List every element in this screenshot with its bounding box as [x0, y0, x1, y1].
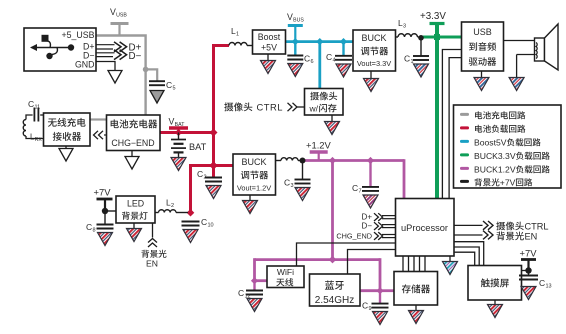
wire purple down to C9	[379, 291, 381, 304]
Boost +5V converter U1	[253, 30, 286, 54]
svg-text:WiFi: WiFi	[277, 267, 294, 277]
ground below C3	[295, 188, 310, 201]
inductor L1 label	[231, 26, 239, 38]
power rail V_BAT	[169, 128, 188, 133]
ground camera module	[325, 122, 340, 135]
USB audio text	[469, 27, 496, 66]
wire teal branch to C4	[342, 42, 344, 56]
svg-text:USB: USB	[473, 27, 492, 37]
legend entry battery load loop (red)	[460, 125, 525, 133]
svg-text:+5_USB: +5_USB	[61, 30, 94, 40]
node battery junction at BUCK 1.2V row	[209, 161, 217, 169]
camera module with flash U6	[305, 89, 344, 116]
capacitor C2 label	[197, 169, 207, 181]
wire V_BUS branch to C6	[294, 42, 296, 56]
net label +7V right	[520, 248, 538, 259]
capacitor C5 label	[166, 80, 176, 92]
wire WiFi to uProcessor	[297, 243, 396, 266]
wire uProcessor to touchscreen 3	[454, 252, 475, 265]
svg-text:Vout=1.2V: Vout=1.2V	[237, 184, 271, 193]
svg-text:+7V: +7V	[500, 178, 516, 188]
svg-text:2: 2	[203, 175, 206, 181]
wire WiFi/BT horizontal rail (purple)	[255, 258, 381, 261]
legend box	[454, 105, 562, 188]
svg-text:8: 8	[92, 228, 95, 234]
inductor L2 label	[166, 198, 174, 210]
wire LED backlight to L2	[155, 212, 159, 214]
svg-text:BUCK1.2V: BUCK1.2V	[474, 165, 516, 175]
wire USB D+ pair to net label	[96, 45, 115, 49]
wire branch to C5	[146, 69, 158, 81]
uProcessor output camera CTRL	[483, 221, 549, 232]
ground BUCK 1.2V	[243, 201, 258, 214]
wire battery net to C2	[212, 166, 215, 178]
wire BUCK1.2 output to coil	[275, 160, 281, 162]
ground below C2	[206, 186, 221, 199]
memory text	[402, 284, 430, 293]
svg-text:Boost5V: Boost5V	[474, 138, 507, 148]
node +7V touch junction	[525, 267, 531, 273]
svg-text:13: 13	[545, 284, 551, 290]
svg-text:C: C	[238, 288, 244, 298]
capacitor C4	[335, 56, 352, 60]
svg-text:2.54GHz: 2.54GHz	[315, 295, 354, 306]
wire backlight EN stub	[152, 223, 154, 238]
svg-text:USB: USB	[116, 13, 127, 19]
battery BAT	[171, 133, 186, 158]
svg-text:+1.2V: +1.2V	[306, 140, 332, 151]
capacitor C10 label	[201, 217, 214, 229]
wire LED ground stem	[133, 223, 135, 229]
capacitor C3 label	[284, 178, 294, 190]
svg-text:C: C	[352, 183, 358, 193]
ground Boost converter	[261, 61, 276, 74]
wire BUCK3.3 to L3	[395, 36, 398, 38]
svg-text:CHG−END: CHG−END	[111, 138, 154, 148]
wire +1.2V branch to C7	[369, 161, 371, 187]
ground below C12	[247, 299, 262, 312]
wire memory ground stem	[415, 305, 417, 311]
uProcessor text	[401, 223, 448, 233]
wire CHG-END to wireless receiver	[104, 134, 107, 136]
legend entry battery charge loop (gray)	[460, 111, 525, 119]
capacitor C2	[205, 178, 222, 182]
svg-text:10: 10	[207, 223, 213, 229]
wire wireless ground stem	[65, 146, 67, 149]
svg-text:3: 3	[290, 183, 293, 189]
capacitor C11 series	[34, 108, 38, 122]
svg-text:C: C	[197, 169, 203, 179]
wire memory bus	[403, 256, 425, 272]
inductor L2	[159, 210, 176, 213]
net label +3.3V	[420, 11, 446, 22]
capacitor C12 label	[238, 288, 251, 300]
wire +1.2V rail (purple)	[301, 159, 404, 162]
legend entry BUCK1.2V load loop (purple)	[460, 165, 550, 175]
inductor L3 label	[398, 18, 406, 30]
legend entry Boost5V load loop (teal)	[460, 138, 541, 148]
wire BUCK3.3 ground stem	[370, 71, 372, 79]
node +1.2V junction at C7	[367, 157, 374, 164]
net label V_BUS	[287, 12, 304, 24]
wire Boost 5V output bus (teal)	[285, 40, 353, 43]
svg-text:5: 5	[172, 86, 175, 92]
svg-text:C: C	[404, 54, 410, 64]
node +7V junction	[102, 208, 108, 214]
capacitor C4 label	[326, 52, 336, 64]
capacitor C1 label	[404, 54, 414, 66]
USB connector icon	[30, 35, 74, 59]
svg-text:BUS: BUS	[293, 18, 304, 24]
ground below C13	[521, 287, 536, 300]
wire +7V to C13	[528, 271, 530, 276]
ground USB audio	[474, 78, 489, 91]
svg-text:C: C	[166, 80, 172, 90]
wire uProcessor CHG_END in pair	[382, 235, 396, 238]
wire camera ground stem	[331, 115, 333, 122]
wire +1.2V drop to uProcessor	[403, 159, 406, 198]
wire Boost ground stem	[267, 54, 269, 61]
node V_USB junction dot	[143, 67, 149, 73]
wire purple into memory box	[380, 289, 394, 292]
net chevron D+ at USB	[114, 42, 142, 54]
node battery junction V_BAT riser	[210, 129, 218, 137]
wire purple Bluetooth stub	[360, 289, 380, 292]
inductor L1	[229, 43, 247, 46]
wire uProcessor D+ in pair	[382, 216, 396, 219]
wire purple down to BT/memory row	[379, 258, 382, 291]
ground below battery	[171, 158, 186, 171]
ground below C10	[183, 230, 198, 243]
legend entry backlight +7V loop (black)	[460, 178, 532, 188]
node teal junction at C4	[340, 38, 347, 45]
wire L1 to Boost input	[247, 45, 253, 47]
power rail +3.3V	[430, 22, 445, 25]
capacitor C9	[372, 304, 389, 308]
WiFi antenna text	[276, 267, 294, 286]
svg-text:D−: D−	[129, 51, 142, 62]
uProcessor input CHG_END	[336, 231, 382, 240]
net label V_BAT	[169, 117, 186, 129]
uProcessor input D-	[362, 221, 383, 230]
wire uProcessor D- in pair	[382, 225, 396, 228]
wire Bluetooth to uProcessor	[348, 250, 396, 275]
inductor L4 buck 1.2V output	[281, 158, 298, 161]
svg-text:11: 11	[34, 105, 40, 111]
capacitor C11 label	[28, 99, 40, 111]
net label V_USB	[110, 7, 127, 19]
ground battery charger	[125, 157, 139, 170]
svg-text:BUCK: BUCK	[241, 157, 266, 167]
wireless receiver text	[48, 118, 86, 141]
uProcessor U9	[396, 199, 455, 257]
svg-text:C: C	[326, 52, 332, 62]
capacitor C10	[182, 222, 200, 226]
ground below C7	[363, 195, 378, 208]
wire charger ground stem	[131, 150, 133, 157]
svg-text:EN: EN	[146, 259, 158, 269]
svg-text:9: 9	[368, 306, 371, 312]
ground speaker	[509, 78, 524, 91]
svg-text:BUCK3.3V: BUCK3.3V	[474, 151, 516, 161]
node 1.2V output junction	[300, 158, 306, 164]
ground BUCK 3.3V	[364, 79, 379, 92]
memory U12	[394, 272, 438, 306]
USB connector J1	[24, 28, 96, 71]
wire +5_USB from USB connector to charger (gray)	[96, 36, 146, 116]
wire battery net to BUCK 1.2V input	[212, 164, 233, 167]
BUCK 3.3V text	[357, 33, 391, 68]
battery label	[189, 142, 207, 152]
LED backlight driver U8	[116, 196, 155, 223]
wire wireless receiver loop with C11	[26, 115, 44, 139]
wire USB D- pair to net label	[96, 53, 115, 57]
uProcessor output backlight EN	[483, 231, 537, 242]
capacitor C1	[413, 56, 429, 60]
svg-text:D+: D+	[362, 212, 373, 221]
battery charger text	[111, 119, 158, 148]
legend entry BUCK3.3V load loop (green)	[460, 151, 550, 161]
wire uProcessor to touchscreen 2	[454, 247, 479, 266]
svg-text:+5V: +5V	[261, 43, 277, 53]
capacitor C5	[149, 81, 165, 85]
svg-text:EN: EN	[525, 232, 538, 242]
wire uProcessor camera CTRL out	[454, 224, 483, 226]
wire battery net charger output	[160, 131, 214, 134]
svg-text:w/: w/	[309, 104, 319, 114]
node +1.2V junction at drop	[329, 157, 336, 164]
svg-text:LED: LED	[127, 199, 144, 209]
wire battery net to LED backlight branch	[191, 166, 216, 213]
power rail +7V right	[521, 260, 536, 271]
USB audio driver U3	[462, 22, 504, 71]
wire L2 to battery node	[176, 212, 188, 214]
wire purple stub into WiFi box	[255, 279, 268, 282]
Bluetooth text	[315, 281, 354, 306]
capacitor C3	[295, 180, 311, 184]
wire C3 branch	[302, 161, 304, 180]
wire camera CTRL stub	[297, 106, 305, 108]
wire L3 to 3.3V node	[418, 36, 422, 38]
node battery junction at L2/C10	[187, 209, 195, 217]
wire coil to 1.2V node	[298, 160, 301, 162]
svg-text:CTRL: CTRL	[525, 222, 549, 232]
capacitor C7 label	[352, 183, 362, 195]
BUCK 3.3V regulator U2	[353, 30, 396, 71]
inductor L3	[398, 34, 418, 37]
battery charger U5	[107, 115, 161, 151]
node purple junction at drop	[329, 256, 337, 264]
svg-text:GND: GND	[75, 60, 95, 70]
wire +3.3V riser and drop to uProcessor (green)	[435, 25, 439, 199]
wire USB connector GND	[96, 62, 115, 71]
svg-text:2: 2	[171, 203, 174, 209]
net chevron D- at USB	[114, 50, 142, 62]
wire +7V to LED backlight	[105, 210, 116, 212]
touchscreen text	[481, 278, 509, 287]
net label backlight EN	[141, 239, 166, 269]
svg-text:7: 7	[358, 189, 361, 195]
USB connector pin labels	[61, 30, 94, 70]
ground below C6	[288, 64, 303, 77]
capacitor C13	[519, 276, 538, 280]
Boost +5V text	[258, 32, 281, 53]
svg-text:3: 3	[403, 24, 406, 30]
net chevron camera CTRL left	[288, 103, 298, 111]
wire battery net down to 1.2V buck row	[212, 131, 215, 166]
node purple junction BT/C9/memory	[376, 287, 383, 294]
svg-text:C: C	[28, 99, 34, 109]
svg-text:6: 6	[310, 59, 313, 65]
svg-text:+7V: +7V	[520, 248, 538, 259]
ground LED backlight	[127, 229, 142, 242]
wireless charging receiver U4	[44, 113, 91, 146]
svg-text:V: V	[110, 7, 116, 17]
capacitor C8	[97, 225, 114, 229]
svg-text:C: C	[201, 217, 207, 227]
ground uProcessor	[443, 262, 458, 275]
LED backlight text	[122, 199, 148, 220]
svg-text:RX: RX	[35, 137, 43, 143]
wire uProcessor backlight EN out	[454, 234, 483, 236]
wire speaker return to ground	[516, 55, 518, 78]
svg-text:4: 4	[332, 58, 335, 64]
svg-text:BAT: BAT	[175, 122, 186, 128]
wire speaker - to ground run	[517, 54, 535, 56]
svg-text:V: V	[287, 12, 293, 22]
capacitor C12	[246, 291, 263, 295]
svg-text:C: C	[86, 222, 92, 232]
power rail +1.2V	[310, 152, 328, 161]
power rail +7V left	[97, 199, 113, 211]
uProcessor input D+	[362, 212, 383, 221]
ground below C1	[414, 64, 429, 77]
wire USB-audio signal 2 to uProcessor	[449, 58, 462, 199]
svg-text:D−: D−	[362, 221, 373, 230]
svg-text:C: C	[284, 178, 290, 188]
net label +7V left	[94, 187, 112, 198]
wire wireless receiver to charger (gray)	[90, 118, 106, 120]
power rail V_BUS	[288, 26, 303, 42]
svg-text:CTRL: CTRL	[257, 102, 283, 113]
svg-text:+7V: +7V	[94, 187, 112, 198]
ground memory	[409, 311, 424, 324]
net chevron CHG-END to wireless	[94, 131, 104, 139]
ground wireless receiver	[59, 149, 73, 162]
wire USB-audio ground stem	[481, 71, 483, 78]
power rail V_USB	[111, 24, 129, 36]
Bluetooth 2.54GHz U11	[310, 274, 361, 306]
camera module text	[309, 92, 338, 114]
touchscreen U13	[468, 266, 522, 301]
ground below C8	[98, 233, 113, 246]
BUCK 1.2V text	[237, 157, 271, 193]
capacitor C6	[287, 56, 303, 60]
wire +7V to C8	[104, 211, 106, 225]
wire +3.3V output to USB audio driver (green)	[421, 36, 462, 39]
node +3.3V junction	[434, 34, 440, 40]
node purple junction WiFi/C12	[251, 277, 258, 284]
ground below C4	[336, 64, 351, 77]
WiFi antenna U10	[267, 266, 304, 288]
speaker LS1	[535, 24, 559, 70]
ground touchscreen	[488, 305, 503, 318]
wire touchscreen to +7V	[521, 270, 529, 272]
net label +1.2V	[306, 140, 332, 151]
wire uProcessor ground stem	[449, 256, 451, 262]
svg-text:C: C	[362, 301, 368, 311]
ground USB connector	[108, 71, 122, 84]
ground below C9	[373, 312, 388, 325]
node battery junction at charger output	[175, 129, 182, 136]
node 3.3V/L3 junction	[418, 35, 424, 41]
inductor Lrx receive coil	[23, 120, 26, 137]
wire C1 branch	[420, 37, 422, 56]
node V_BUS junction	[292, 38, 299, 45]
capacitor C8 label	[86, 222, 96, 234]
svg-text:BAT: BAT	[189, 142, 207, 152]
net label camera CTRL left	[224, 102, 283, 113]
svg-text:BUCK: BUCK	[361, 33, 386, 43]
inductor Lrx label	[30, 133, 42, 144]
svg-text:1: 1	[236, 32, 239, 38]
svg-text:uProcessor: uProcessor	[401, 223, 448, 233]
wire uProcessor to touchscreen 1	[454, 242, 484, 266]
wire purple down to C12	[253, 281, 255, 291]
svg-text:+3.3V: +3.3V	[420, 11, 446, 22]
svg-text:V: V	[169, 117, 175, 127]
ground below C5	[150, 91, 164, 104]
capacitor C6 label	[304, 54, 314, 66]
svg-text:CHG_END: CHG_END	[336, 231, 372, 240]
wire battery net riser to L1	[214, 46, 230, 135]
capacitor C7	[362, 187, 379, 191]
node teal junction camera drop	[316, 38, 323, 45]
svg-text:Vout=3.3V: Vout=3.3V	[357, 59, 391, 68]
wire touchscreen ground stem	[494, 300, 496, 305]
wire purple down-left to WiFi	[253, 258, 256, 281]
capacitor C9 label	[362, 301, 372, 313]
svg-text:Boost: Boost	[258, 32, 281, 42]
capacitor C13 label	[539, 278, 552, 290]
svg-text:C: C	[539, 278, 545, 288]
wire USB-audio signal 1 to uProcessor	[442, 50, 462, 199]
wire teal drop to camera module	[318, 42, 321, 89]
wire USB-audio to speaker +	[503, 40, 535, 42]
wire +1.2V drop to WiFi/Bluetooth rail	[331, 161, 334, 260]
BUCK 1.2V regulator U7	[233, 154, 276, 195]
svg-text:C: C	[304, 54, 310, 64]
wire BUCK1.2 ground stem	[249, 195, 251, 201]
